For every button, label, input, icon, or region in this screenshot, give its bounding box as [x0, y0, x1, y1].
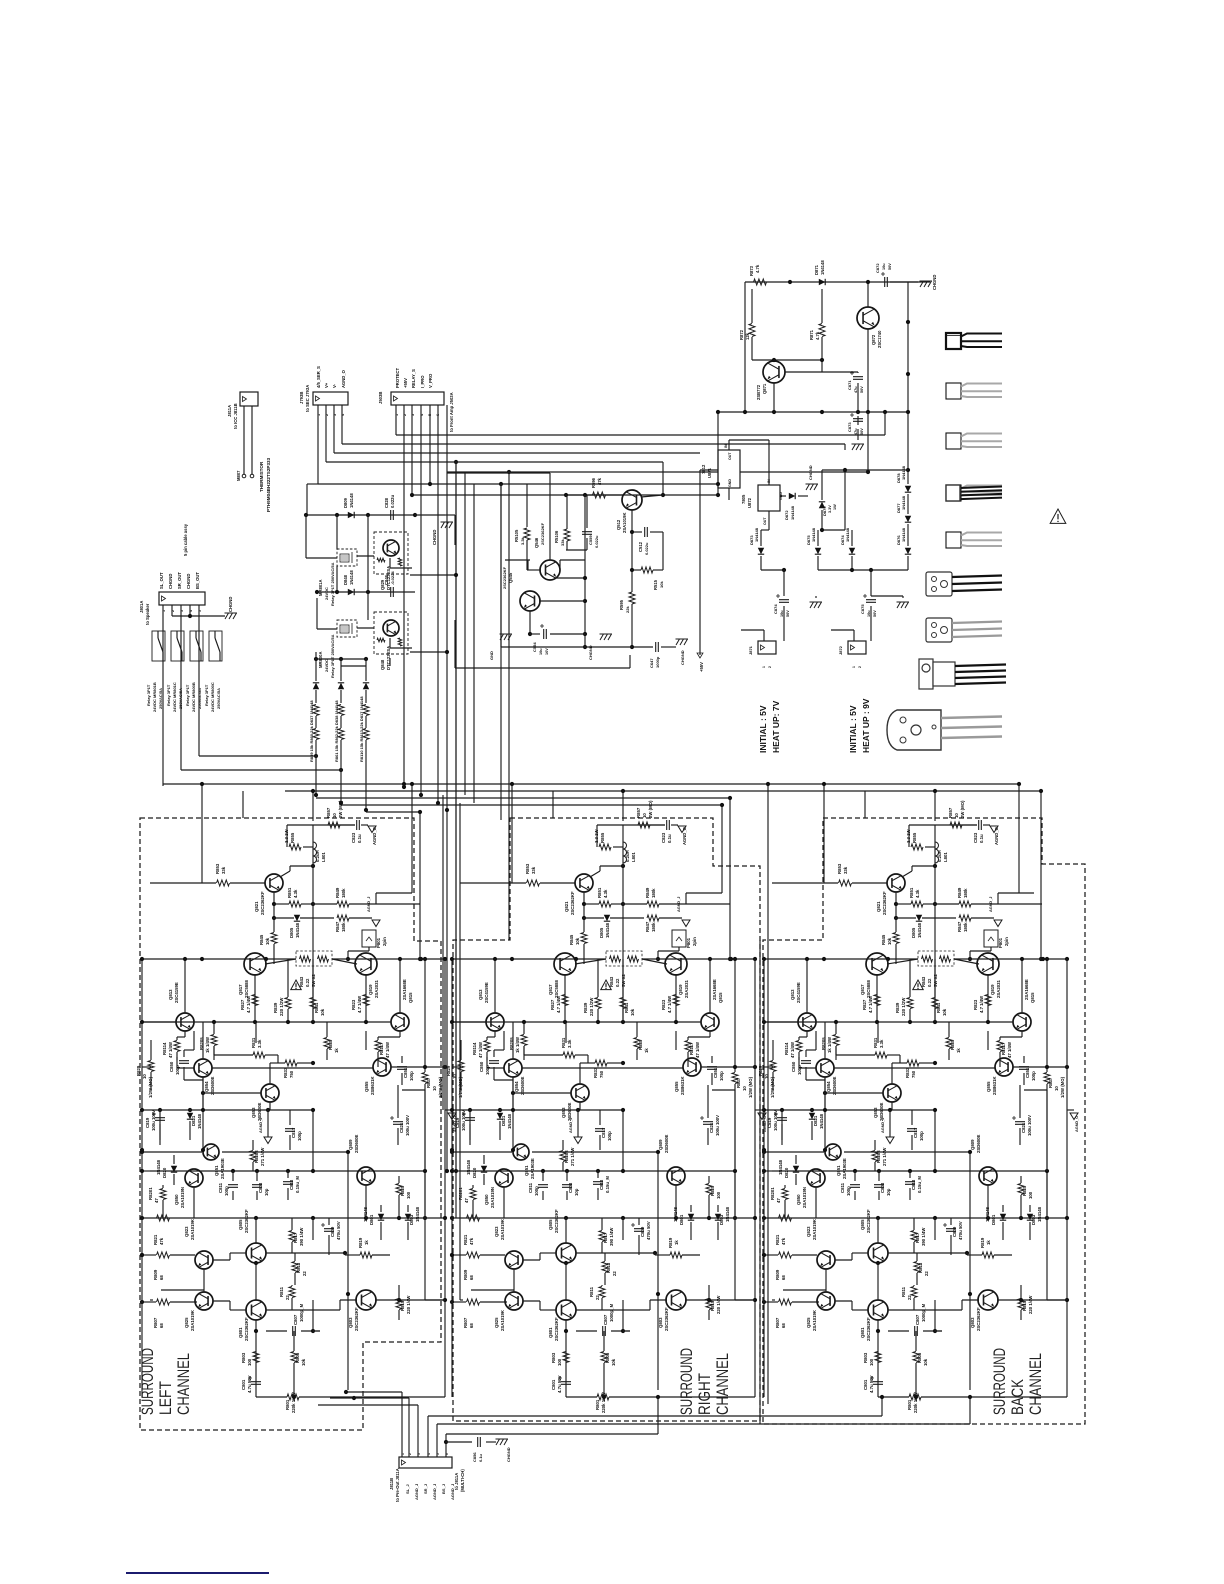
svg-text:250VAC/5A: 250VAC/5A	[216, 688, 221, 709]
svg-text:C647: C647	[649, 658, 654, 668]
svg-text:0.022u: 0.022u	[644, 542, 649, 555]
svg-text:R835: R835	[950, 1039, 955, 1050]
svg-text:CHANNEL: CHANNEL	[713, 1353, 732, 1415]
diode D821 1N4148	[497, 1113, 503, 1119]
svg-text:R809: R809	[153, 1269, 158, 1280]
svg-text:24VDC MR801B: 24VDC MR801B	[152, 682, 157, 712]
svg-text:2SA2031: 2SA2031	[374, 979, 379, 998]
resistor R817 390 1/4W	[289, 1231, 295, 1242]
svg-text:10p: 10p	[264, 1188, 269, 1196]
resistor R8201 47	[160, 1189, 166, 1200]
svg-text:C851: C851	[403, 1067, 408, 1078]
svg-text:2SC4159E: 2SC4159E	[174, 982, 179, 1003]
svg-text:100: 100	[557, 1358, 562, 1366]
capacitor C817 100p	[907, 1129, 917, 1132]
svg-text:AGND_J: AGND_J	[450, 1484, 455, 1500]
svg-text:1: 1	[762, 666, 766, 668]
svg-text:0.15u_M: 0.15u_M	[917, 1176, 922, 1193]
svg-text:0.022u: 0.022u	[390, 495, 395, 508]
wire Q853 base	[513, 1092, 571, 1094]
resistor R8117 47 1/4W	[997, 1041, 1003, 1052]
connector J872	[848, 641, 866, 654]
wire row D	[834, 1067, 995, 1069]
transistor Q813 2SC4159	[798, 1013, 816, 1031]
svg-text:Q815: Q815	[1030, 992, 1035, 1003]
svg-text:P801: P801	[998, 937, 1003, 948]
svg-text:1N4148: 1N4148	[790, 505, 795, 520]
regulator U872 7805	[758, 485, 780, 511]
svg-text:2SC2362KF: 2SC2362KF	[260, 891, 265, 915]
wire gap feeders ch2-ch3	[759, 940, 761, 1424]
svg-text:47 1/4W: 47 1/4W	[385, 1041, 390, 1058]
svg-text:4.3k: 4.3k	[603, 889, 608, 898]
svg-text:1N4148: 1N4148	[466, 1159, 471, 1175]
resistor R835 1k	[324, 1038, 330, 1049]
svg-text:1N4148: 1N4148	[197, 1113, 202, 1129]
capacitor C809 470u 50V	[946, 1229, 956, 1232]
diode D872 1N4148	[789, 493, 795, 499]
wire Q815 collector	[399, 959, 401, 1013]
svg-text:7812: 7812	[701, 464, 706, 474]
wire rows G	[142, 1254, 156, 1256]
transistor Q819 2SA2031	[977, 953, 999, 975]
wire top bus 5	[366, 811, 420, 813]
svg-text:2SC2362KF: 2SC2362KF	[354, 1307, 359, 1331]
svg-text:22k: 22k	[625, 606, 630, 613]
capacitor C811 100p	[850, 1185, 860, 1188]
svg-text:2SA2031: 2SA2031	[684, 979, 689, 998]
svg-text:2SC4159E: 2SC4159E	[484, 982, 489, 1003]
capacitor C873 47u 50V	[853, 419, 863, 422]
resistor R815 220 1/4W	[1018, 1299, 1024, 1310]
resistor R821 47k	[779, 1215, 792, 1221]
svg-text:R811: R811	[279, 1286, 284, 1297]
svg-text:L801: L801	[631, 852, 636, 862]
svg-text:R849: R849	[335, 887, 340, 898]
svg-text:2SA1019K: 2SA1019K	[190, 1218, 195, 1240]
svg-text:Q801: Q801	[238, 1327, 243, 1338]
resistor R807 68	[157, 1299, 170, 1305]
svg-text:D820: D820	[472, 1167, 477, 1178]
relay MR800A	[337, 620, 357, 637]
svg-text:Q823: Q823	[184, 1226, 189, 1237]
svg-text:CHGND: CHGND	[432, 530, 437, 545]
svg-text:R837: R837	[736, 1077, 741, 1088]
resistor R821 47k	[467, 1215, 480, 1221]
svg-text:R857: R857	[326, 807, 331, 818]
transistor package TO-3P	[887, 710, 941, 750]
resistor R811 22	[289, 1287, 295, 1298]
wire emitter col	[503, 1031, 505, 1050]
svg-text:C801: C801	[551, 1379, 556, 1390]
svg-text:R595: R595	[619, 599, 624, 610]
svg-text:C850: C850	[791, 1061, 796, 1072]
zener D879 3.3V	[819, 502, 825, 508]
svg-text:750: 750	[599, 1070, 604, 1078]
wire ch2 drop B	[729, 798, 731, 959]
wire	[255, 1320, 257, 1397]
wire mid rail	[764, 958, 1067, 960]
capacitor C817 100p	[285, 1129, 295, 1132]
svg-text:R841: R841	[624, 1002, 629, 1013]
wire right rail	[444, 959, 446, 1397]
svg-text:10: 10	[452, 1074, 457, 1079]
svg-text:M807: M807	[236, 470, 241, 481]
svg-text:4/5_SER_S: 4/5_SER_S	[316, 366, 321, 388]
wire	[336, 515, 338, 549]
svg-text:22: 22	[907, 1295, 912, 1300]
svg-text:10k: 10k	[630, 1008, 635, 1016]
svg-text:AGND_O: AGND_O	[372, 826, 377, 845]
wire row D	[212, 1067, 373, 1069]
transistor Q8 2SD600E	[261, 1084, 279, 1102]
diode D876 1N4148	[905, 548, 911, 554]
resistor R515 10k	[641, 567, 653, 573]
svg-text:R821: R821	[775, 1234, 780, 1245]
svg-text:4.7u 50V: 4.7u 50V	[247, 1375, 252, 1393]
resistor R847 180k	[337, 915, 349, 921]
svg-text:AGND_J: AGND_J	[414, 1484, 419, 1500]
svg-text:L801: L801	[943, 852, 948, 862]
wire long verticals	[934, 866, 936, 959]
svg-text:R811: R811	[901, 1286, 906, 1297]
svg-text:4.7k: 4.7k	[815, 331, 820, 340]
svg-text:4.7u 50V: 4.7u 50V	[557, 1375, 562, 1393]
extra channel interior wires	[142, 1021, 194, 1023]
capacitor C811 100p	[538, 1185, 548, 1188]
svg-text:CHGND: CHGND	[168, 574, 173, 589]
capacitor C554 10u 16V	[544, 629, 547, 639]
transistor Q821 2SC2362KF	[575, 874, 593, 892]
svg-text:CHGND: CHGND	[228, 597, 233, 612]
svg-text:R833: R833	[283, 1067, 288, 1078]
svg-text:C559: C559	[588, 535, 593, 545]
svg-text:2SC2362KF: 2SC2362KF	[882, 891, 887, 915]
svg-text:R825: R825	[710, 1185, 715, 1196]
resistor R837 10 1/2W MO	[1044, 1073, 1050, 1084]
svg-text:J811A: J811A	[227, 405, 232, 417]
wire left rail	[763, 959, 765, 1397]
svg-text:Q546: Q546	[534, 537, 539, 548]
svg-text:2SD600E: 2SD600E	[520, 1076, 525, 1095]
wire J811B pin1	[401, 1392, 403, 1457]
svg-text:R841: R841	[936, 1002, 941, 1013]
wire rows G	[452, 1254, 466, 1256]
svg-text:R841: R841	[314, 1002, 319, 1013]
svg-text:4.7 1/4W: 4.7 1/4W	[868, 995, 873, 1013]
resistor R8201 47	[470, 1189, 476, 1200]
connector P801 2pin	[362, 930, 376, 947]
diode D801 1N4148	[1000, 1214, 1006, 1220]
svg-text:CHGND: CHGND	[808, 465, 813, 480]
svg-text:R596: R596	[591, 477, 596, 488]
wire collector	[280, 871, 290, 877]
svg-text:R815: R815	[710, 1300, 715, 1311]
svg-text:Q853: Q853	[251, 1107, 256, 1118]
resistor R829 10 1/2W MO	[458, 1061, 464, 1072]
resistor R809 68	[467, 1252, 480, 1258]
svg-text:0.15u_M: 0.15u_M	[605, 1176, 610, 1193]
relay contact MR800B	[190, 631, 203, 661]
svg-text:2SB631K: 2SB631K	[992, 1075, 997, 1095]
transistor Q821 2SC2362KF	[265, 874, 283, 892]
svg-text:C807: C807	[603, 1314, 608, 1325]
svg-text:MR800A: MR800A	[318, 651, 323, 668]
svg-text:Q855: Q855	[986, 1081, 991, 1092]
svg-text:Q801: Q801	[860, 1327, 865, 1338]
svg-text:IN: IN	[724, 444, 728, 448]
svg-text:Q821: Q821	[876, 901, 881, 912]
svg-text:0.1u: 0.1u	[478, 1453, 483, 1462]
svg-text:2pin: 2pin	[1004, 937, 1009, 946]
svg-text:10: 10	[432, 1086, 437, 1091]
capacitor C874 10u 50V	[779, 600, 789, 603]
analog ground AGND_O	[368, 826, 376, 833]
relay MR801A	[337, 549, 357, 566]
svg-text:C875: C875	[860, 604, 865, 614]
svg-text:220 1/4W: 220 1/4W	[1028, 1295, 1033, 1314]
wire top bus 4	[341, 804, 722, 806]
svg-text:C817: C817	[601, 1127, 606, 1138]
resistor R843 0.22 5W X2	[296, 951, 332, 966]
inductor L801 0.2uH with R855	[597, 824, 665, 826]
svg-text:100u 100V: 100u 100V	[773, 1110, 778, 1131]
capacitor C821 100u 100V	[1015, 1122, 1025, 1125]
svg-text:to SEC J793A: to SEC J793A	[305, 385, 310, 412]
svg-text:LEFT: LEFT	[156, 1381, 175, 1415]
svg-text:2SC5888: 2SC5888	[244, 979, 249, 998]
svg-text:C809: C809	[640, 1226, 645, 1237]
svg-text:V-: V-	[332, 383, 337, 388]
svg-text:Q850: Q850	[796, 1194, 801, 1205]
wire	[822, 529, 845, 531]
wire emitter	[895, 892, 897, 918]
transistor Q809 2SD600E	[667, 1167, 685, 1185]
resistor R839 220 1/2W	[285, 998, 291, 1009]
svg-text:4.7 1/4W: 4.7 1/4W	[357, 995, 362, 1013]
resistor R809 68	[157, 1252, 170, 1258]
resistor R829 10 1/2W MO	[148, 1061, 154, 1072]
wire	[447, 472, 550, 474]
svg-text:C803: C803	[568, 1182, 573, 1193]
svg-text:R803: R803	[863, 1352, 868, 1363]
svg-text:47k: 47k	[781, 1237, 786, 1245]
svg-text:7805: 7805	[741, 494, 746, 504]
svg-text:HEAT UP : 9V: HEAT UP : 9V	[861, 698, 871, 753]
svg-text:2SC2362KF: 2SC2362KF	[244, 1317, 249, 1341]
wire channel 3 top feed	[823, 784, 825, 883]
resistor R5105 3.3k	[524, 528, 530, 540]
resistor R805 10k	[913, 1352, 919, 1363]
svg-text:100p: 100p	[797, 1065, 802, 1075]
svg-text:-0.0224: -0.0224	[390, 571, 395, 585]
svg-text:R833: R833	[593, 1067, 598, 1078]
analog ground AGND_O	[990, 826, 998, 833]
resistor R8201 47	[782, 1189, 788, 1200]
svg-text:2SA1903E: 2SA1903E	[842, 1158, 847, 1179]
svg-text:CHANNEL: CHANNEL	[1026, 1353, 1045, 1415]
transistor Q546 2SC2362KF	[540, 560, 560, 580]
svg-text:10k: 10k	[923, 1358, 928, 1366]
svg-text:10u: 10u	[780, 610, 784, 617]
svg-text:R8117: R8117	[689, 1042, 694, 1055]
resistor R803 100	[563, 1352, 569, 1363]
svg-text:1k: 1k	[364, 1240, 369, 1245]
svg-text:24VDC: 24VDC	[324, 587, 329, 600]
warning triangle	[291, 980, 301, 990]
svg-text:47 1/4W: 47 1/4W	[478, 1041, 483, 1058]
svg-text:R837: R837	[426, 1077, 431, 1088]
capacitor C801 4.7u 50V	[873, 1382, 883, 1385]
svg-text:100u 100V: 100u 100V	[715, 1115, 720, 1136]
connector J811B	[399, 1457, 452, 1468]
capacitor C819 100u 100V	[465, 1118, 475, 1121]
svg-text:C872: C872	[875, 263, 880, 273]
svg-text:Q854: Q854	[826, 1081, 831, 1092]
resistor R857 10 2W	[328, 822, 340, 828]
ground CHGND	[415, 514, 445, 516]
svg-text:R843: R843	[299, 976, 304, 987]
svg-text:R825: R825	[400, 1185, 405, 1196]
svg-text:CHANNEL: CHANNEL	[174, 1353, 193, 1415]
wire Q853 collector	[269, 1063, 271, 1084]
resistor R811 22	[911, 1287, 917, 1298]
svg-text:180k: 180k	[651, 922, 656, 932]
svg-text:50V: 50V	[860, 386, 864, 393]
svg-text:100p: 100p	[297, 1131, 302, 1141]
svg-text:THERMISTOR: THERMISTOR	[259, 461, 264, 492]
wire protect rail	[566, 494, 623, 496]
svg-text:4.7 1/4W: 4.7 1/4W	[979, 995, 984, 1013]
svg-text:2SA1019N: 2SA1019N	[490, 1187, 495, 1208]
capacitor C807 1000p	[293, 1326, 296, 1336]
resistor R823 4.7 1/4W	[985, 995, 991, 1006]
svg-text:RELAY_S: RELAY_S	[411, 369, 416, 388]
svg-text:R813: R813	[918, 1262, 923, 1273]
wire long verticals	[312, 866, 314, 959]
svg-text:Q853: Q853	[561, 1107, 566, 1118]
svg-text:100p: 100p	[719, 1071, 724, 1081]
ground CHGND	[806, 484, 819, 490]
svg-text:Q819: Q819	[678, 984, 683, 995]
svg-text:2SA1668E: 2SA1668E	[712, 979, 717, 1000]
svg-text:10k: 10k	[942, 1008, 947, 1016]
svg-text:J503B: J503B	[378, 392, 383, 404]
resistor R825 100	[1018, 1184, 1024, 1195]
svg-text:C819: C819	[145, 1117, 150, 1128]
svg-text:68: 68	[781, 1323, 786, 1328]
diode D878 1N4148	[905, 486, 911, 492]
wire right rail	[1066, 959, 1068, 1397]
wire J811B pin4	[427, 1416, 429, 1457]
svg-text:PROTECT: PROTECT	[395, 368, 400, 388]
svg-text:SL_OUT: SL_OUT	[159, 572, 164, 589]
svg-text:C803: C803	[258, 1182, 263, 1193]
svg-text:47 1/4W: 47 1/4W	[1007, 1041, 1012, 1058]
svg-text:R823: R823	[351, 999, 356, 1010]
svg-text:J793B: J793B	[299, 392, 304, 404]
svg-text:1/2W (MO): 1/2W (MO)	[148, 1076, 153, 1098]
svg-text:R813: R813	[296, 1262, 301, 1273]
svg-text:100p: 100p	[175, 1065, 180, 1075]
node bus junctions	[454, 460, 458, 464]
svg-text:100: 100	[1028, 1191, 1033, 1199]
svg-text:Q855: Q855	[364, 1081, 369, 1092]
wire J503B pin1	[395, 405, 397, 435]
svg-text:2W (MO): 2W (MO)	[648, 800, 653, 818]
diode D803 1N4148	[405, 1214, 411, 1220]
wire Q815 collector	[1021, 959, 1023, 1013]
capacitor C851 100p	[1019, 1067, 1029, 1070]
svg-text:R801: R801	[907, 1399, 912, 1410]
capacitor C559 0.022u	[582, 532, 592, 535]
svg-text:to Speaker: to Speaker	[145, 603, 150, 625]
svg-text:CHGND: CHGND	[932, 275, 937, 290]
diode D871 1N4148	[819, 279, 825, 285]
svg-text:R801: R801	[595, 1399, 600, 1410]
diode D801 1N4148	[378, 1214, 384, 1220]
wire emitter	[273, 892, 275, 918]
transistor Q803 2SC2362KF	[356, 1290, 376, 1310]
svg-text:22: 22	[924, 1271, 929, 1276]
svg-text:R871: R871	[809, 329, 814, 340]
inductor L801 0.2uH with R855	[909, 824, 977, 826]
svg-text:1k: 1k	[334, 1048, 339, 1053]
svg-text:C801: C801	[241, 1379, 246, 1390]
wire emitter	[583, 892, 585, 918]
diode D820	[793, 1166, 799, 1172]
transistor Q850 2SA1019N	[807, 1169, 825, 1187]
resistor R845 10k	[271, 933, 277, 944]
svg-text:R833: R833	[905, 1067, 910, 1078]
svg-text:1N4148: 1N4148	[725, 1206, 730, 1222]
transistor Q813 2SC4159	[176, 1013, 194, 1031]
wire	[788, 280, 792, 284]
svg-text:OUT: OUT	[763, 517, 767, 525]
resistor R815 220 1/4W	[396, 1299, 402, 1310]
svg-text:Q855: Q855	[674, 1081, 679, 1092]
resistor R5106 33k	[564, 529, 570, 541]
svg-text:C813: C813	[289, 1179, 294, 1190]
ground CHGND	[600, 634, 613, 640]
svg-text:0.2uH: 0.2uH	[315, 850, 320, 862]
svg-text:2: 2	[768, 666, 772, 668]
svg-text:2SC2362KF: 2SC2362KF	[244, 1209, 249, 1233]
wire	[783, 618, 785, 641]
resistor R8203 271	[250, 1151, 256, 1162]
svg-text:47k: 47k	[597, 477, 602, 485]
wire mid rail	[142, 958, 445, 960]
svg-text:R829: R829	[758, 1065, 763, 1076]
svg-text:D805: D805	[911, 927, 916, 938]
svg-text:10: 10	[954, 813, 959, 818]
svg-text:1k: 1k	[674, 1240, 679, 1245]
wire bundle ch1-ch2 gap	[442, 795, 444, 1110]
svg-text:2SA1019K: 2SA1019K	[500, 1309, 505, 1331]
svg-text:100: 100	[406, 1191, 411, 1199]
resistor R857 10 2W	[638, 822, 650, 828]
capacitor C807 1000p	[915, 1326, 918, 1336]
svg-text:D805: D805	[289, 927, 294, 938]
wire J811B pin2	[408, 1398, 410, 1457]
svg-text:BS_OUT: BS_OUT	[195, 572, 200, 589]
svg-text:GND: GND	[728, 479, 732, 487]
svg-text:180k: 180k	[963, 922, 968, 932]
transistor Q817 2SC5888	[866, 953, 888, 975]
wire driver emitters	[265, 959, 296, 964]
svg-text:Relay 3P1T 250VAC/5A: Relay 3P1T 250VAC/5A	[330, 562, 335, 606]
svg-text:J871: J871	[748, 645, 753, 655]
